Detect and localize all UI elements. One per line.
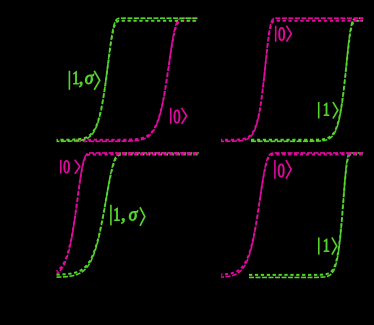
curve G2 ket(1) sigmoid top-right [251, 18, 363, 141]
svg-text:,: , [79, 68, 84, 89]
svg-text:0: 0 [278, 22, 286, 45]
svg-text:1: 1 [323, 98, 330, 120]
ket |0> label top-left [171, 105, 187, 128]
curve M2 ket(0) sigmoid top-right [221, 18, 363, 141]
curve M4 ket(0) sigmoid bottom-right [221, 153, 363, 277]
svg-text:σ: σ [85, 68, 95, 90]
svg-text:0: 0 [278, 159, 286, 182]
svg-text:0: 0 [63, 156, 70, 178]
curve M1 ket(0) sigmoid top-left [76, 18, 198, 141]
curve G3 ket(1,sigma) sigmoid bottom-left [57, 153, 199, 277]
ket |0> label top-right [276, 22, 292, 45]
ket |1,sigma> label bottom-left [111, 203, 145, 226]
svg-text:1: 1 [323, 234, 330, 256]
svg-text:,: , [121, 204, 126, 225]
ket |1> label bottom-right [319, 234, 337, 256]
ket |0> label bottom-left [61, 156, 80, 178]
ket |1> label top-right [319, 98, 338, 120]
ket |1,sigma> label top-left [69, 67, 99, 90]
curve G1 ket(1,sigma) sigmoid top-left [57, 18, 198, 141]
ket |0> label bottom-right [275, 159, 291, 182]
svg-text:0: 0 [173, 105, 181, 128]
svg-text:σ: σ [129, 204, 139, 226]
svg-text:1: 1 [113, 203, 120, 225]
curve M3 ket(0) sigmoid bottom-left [57, 153, 199, 274]
curve G4 ket(1) sigmoid bottom-right [249, 153, 363, 278]
